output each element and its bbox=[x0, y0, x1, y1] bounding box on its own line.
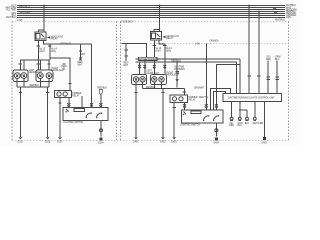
dimmer relay label (right) bbox=[189, 97, 198, 101]
fuse label 2 (left) bbox=[51, 49, 58, 53]
rail tick B bbox=[37, 63, 40, 65]
tick bbox=[257, 75, 260, 77]
bus left labels bbox=[5, 5, 16, 19]
svg-text:WHT/BLK: WHT/BLK bbox=[6, 17, 16, 19]
tick bbox=[161, 92, 164, 94]
junction dot (left feed) bbox=[43, 5, 45, 7]
bus line 4 bbox=[17, 11, 285, 13]
svg-text:G201: G201 bbox=[18, 141, 24, 143]
stub to switch terminal bbox=[81, 96, 83, 108]
relay pin 1 connector tick bbox=[37, 45, 40, 47]
bulb feed wires (right circuit) bbox=[140, 59, 165, 75]
fuse label 2 (right) bbox=[166, 48, 173, 52]
fuse 2 wire (right) bbox=[164, 44, 166, 65]
wire: relay top step (right) bbox=[154, 30, 160, 32]
inline connector circle bbox=[100, 129, 103, 132]
fuse label 1 (left) bbox=[39, 49, 46, 53]
tick bbox=[134, 92, 137, 94]
bulb A filament ground stubs bbox=[17, 79, 24, 87]
svg-text:RED/: RED/ bbox=[123, 63, 129, 65]
svg-text:G202: G202 bbox=[45, 141, 51, 143]
ground rail under bulbs (left) bbox=[17, 86, 49, 88]
svg-text:GRN: GRN bbox=[238, 123, 243, 125]
svg-text:WHT: WHT bbox=[123, 65, 129, 67]
bus wire color labels bbox=[20, 6, 31, 14]
dimmer relay label (left) bbox=[72, 93, 81, 97]
rail tick C bbox=[47, 63, 50, 65]
junction dot (DRL feed 1) bbox=[248, 5, 250, 7]
svg-text:LEFT: LEFT bbox=[29, 70, 35, 72]
bus line 2 bbox=[17, 7, 285, 9]
stub to bulb A right pin bbox=[23, 60, 25, 70]
svg-text:C725: C725 bbox=[17, 20, 23, 22]
svg-text:WHT/BLU: WHT/BLU bbox=[20, 6, 30, 8]
connector chevrons bbox=[215, 104, 218, 108]
svg-text:No.13: No.13 bbox=[39, 49, 46, 51]
svg-text:G404: G404 bbox=[213, 142, 219, 144]
right headlight label bbox=[52, 68, 65, 72]
headlight relay (left) bbox=[35, 32, 46, 41]
ground G203 bbox=[57, 137, 63, 143]
switch feed connector chevrons bbox=[90, 103, 93, 107]
svg-text:G203: G203 bbox=[57, 141, 63, 143]
svg-text:BLU: BLU bbox=[245, 123, 250, 125]
left dashed box right edge bbox=[116, 21, 118, 140]
labeled feed 2 into DRL bbox=[275, 57, 281, 94]
chevrons bbox=[183, 104, 186, 108]
incoming wire from left circuit bbox=[122, 44, 147, 59]
dimmer relay box (right) bbox=[170, 95, 188, 102]
left headlight label bbox=[29, 70, 42, 74]
ground G402 bbox=[160, 137, 166, 143]
dimmer pin to switch wire bbox=[68, 98, 70, 108]
relay pin tick (right) bbox=[153, 45, 156, 47]
bus drop to DRL unit 1 bbox=[248, 6, 250, 94]
svg-text:RED/BLK: RED/BLK bbox=[146, 87, 156, 89]
svg-text:RED/: RED/ bbox=[78, 62, 84, 64]
inline stub connector bbox=[123, 44, 129, 67]
svg-text:LIGHTING SWITCH: LIGHTING SWITCH bbox=[63, 122, 83, 124]
tick on dimmer feed bbox=[68, 82, 71, 84]
svg-text:G204: G204 bbox=[98, 142, 104, 144]
DRL output connector 4 bbox=[253, 102, 264, 125]
dimmer relay box (left) bbox=[55, 90, 72, 97]
right dashed box left edge bbox=[120, 21, 122, 140]
bus line 5 bbox=[17, 13, 285, 15]
bus line 7 bbox=[17, 17, 285, 19]
switch riser to rail 3 bbox=[216, 65, 240, 110]
wire: relay top step (left) bbox=[39, 30, 45, 32]
svg-text:FUSE BOX: FUSE BOX bbox=[122, 22, 134, 24]
ground wire (right circuit) bbox=[162, 88, 164, 137]
ground G204 bbox=[98, 138, 104, 145]
wire: bus to headlight relay (left) bbox=[43, 6, 45, 33]
tick bbox=[183, 91, 186, 93]
ground G404 bbox=[213, 138, 219, 145]
svg-text:WHT/GRN: WHT/GRN bbox=[253, 123, 264, 125]
svg-text:HOT: HOT bbox=[11, 5, 16, 7]
ground rail (right circuit) bbox=[143, 87, 185, 89]
bus right end labels bbox=[273, 5, 297, 21]
feed rail 1 (right) bbox=[136, 58, 241, 60]
rail tick A bbox=[19, 63, 22, 65]
svg-text:LIGHTING SWITCH: LIGHTING SWITCH bbox=[180, 124, 200, 126]
switch to ground wire bbox=[100, 120, 102, 136]
svg-text:WHT/GRN: WHT/GRN bbox=[20, 12, 31, 14]
ground G401 bbox=[133, 137, 139, 143]
svg-text:WHT: WHT bbox=[78, 64, 84, 66]
right dashed box right edge bbox=[288, 21, 290, 140]
stub tick 1 bbox=[79, 50, 82, 52]
headlight relay label (right) bbox=[166, 35, 179, 40]
DRL junction wire bbox=[239, 102, 247, 118]
switch feed drop wire bbox=[91, 44, 93, 108]
diode branch bbox=[175, 62, 186, 88]
wire: bus to headlight relay (right) bbox=[159, 6, 161, 32]
rail to dimmer feed wire bbox=[183, 88, 185, 95]
svg-text:G405: G405 bbox=[261, 143, 267, 145]
svg-text:DIMMER: DIMMER bbox=[189, 97, 198, 99]
stub wire label bbox=[78, 62, 84, 66]
DRL output connector 3 bbox=[245, 110, 250, 125]
bulb1 ground wire (right circuit) bbox=[135, 82, 137, 137]
svg-text:RIGHT: RIGHT bbox=[167, 72, 175, 74]
headlight relay label (left) bbox=[51, 35, 64, 40]
combination light switch (left) bbox=[63, 108, 108, 121]
svg-text:DIMMER: DIMMER bbox=[72, 93, 81, 95]
relay pin 1 wire (right) bbox=[153, 40, 155, 65]
left headlight label (right circuit) bbox=[147, 71, 160, 75]
bus drop to DRL unit 2 bbox=[258, 12, 260, 94]
ground wire left bbox=[20, 87, 22, 137]
rail corner drop 1 bbox=[239, 59, 241, 93]
svg-text:YEL/: YEL/ bbox=[266, 57, 271, 59]
bus junction mark 2 bbox=[274, 12, 277, 14]
bus line 6 bbox=[17, 15, 285, 17]
switch to ground wire (right) bbox=[215, 123, 217, 137]
svg-text:GRN/: GRN/ bbox=[275, 57, 281, 59]
dimmer ground tick bbox=[58, 102, 61, 104]
left headlight bulb (left circuit) bbox=[13, 70, 28, 82]
svg-text:RED/BLK: RED/BLK bbox=[30, 85, 40, 87]
svg-text:GRN: GRN bbox=[286, 17, 291, 19]
ground G201 bbox=[18, 137, 24, 143]
svg-text:BLU: BLU bbox=[238, 125, 243, 127]
relay pin 2 jog (right) bbox=[159, 40, 165, 44]
tap wire label bbox=[62, 66, 68, 70]
svg-text:G403: G403 bbox=[171, 141, 177, 143]
dimmer pin to ground (right) bbox=[173, 102, 175, 137]
svg-text:RUNNING: RUNNING bbox=[175, 69, 186, 71]
daytime running lights control unit bbox=[223, 93, 282, 101]
bulb ground stubs (right circuit) bbox=[143, 82, 162, 88]
stub wire with inline connectors bbox=[80, 44, 82, 60]
DRL output connector 2 bbox=[238, 117, 243, 127]
bus junction mark 1 bbox=[273, 8, 276, 10]
ground wire right bbox=[47, 87, 49, 137]
svg-text:G401: G401 bbox=[133, 141, 139, 143]
dashed boundary top edge bbox=[12, 20, 289, 22]
rail label box bbox=[139, 57, 161, 61]
svg-text:RED: RED bbox=[229, 125, 234, 127]
tap connector tick bbox=[62, 63, 65, 65]
left headlight bulb (right circuit) bbox=[132, 74, 147, 84]
svg-text:GRN/WHT: GRN/WHT bbox=[194, 88, 205, 90]
dimmer pin to ground wire bbox=[59, 98, 61, 138]
right headlight label (right circuit) bbox=[167, 72, 180, 76]
dashed bottom edge bbox=[12, 139, 289, 141]
bus line 3 bbox=[17, 9, 285, 11]
long feed to switch (right) bbox=[205, 43, 207, 110]
combination light switch (right) bbox=[182, 110, 224, 123]
relay pin 2 jog wire bbox=[44, 41, 92, 44]
feed rail 2 (right) bbox=[136, 61, 237, 63]
bus line 1 bbox=[17, 5, 285, 7]
DRL input routing 1 bbox=[214, 92, 226, 111]
DRL output connector 1 bbox=[229, 102, 234, 128]
svg-text:No.13: No.13 bbox=[155, 48, 162, 50]
chevrons bbox=[67, 103, 70, 107]
ground G202 bbox=[45, 137, 51, 143]
connector chevrons bbox=[205, 104, 208, 108]
stub connector pair bbox=[79, 58, 82, 60]
junction dot (right feed) bbox=[159, 5, 161, 7]
inner dashed line (DRL region) bbox=[150, 42, 289, 44]
ground wire left tick bbox=[19, 92, 22, 94]
bulb B filament ground stubs bbox=[40, 79, 49, 87]
connector marks above bulbs bbox=[138, 65, 166, 69]
svg-text:No.14: No.14 bbox=[166, 48, 173, 50]
headlight feed rail (left) bbox=[20, 60, 50, 70]
left dashed box left edge bbox=[11, 21, 13, 140]
wire: fuse2 tap to dimmer relay bbox=[50, 58, 70, 90]
svg-text:RED/WHT: RED/WHT bbox=[61, 44, 72, 46]
fuse 2 wire bbox=[49, 44, 51, 60]
svg-text:RED/BLU: RED/BLU bbox=[171, 60, 181, 62]
svg-text:WHT/BLK: WHT/BLK bbox=[275, 19, 285, 21]
dimmer pin to switch (right) bbox=[184, 102, 186, 110]
fuse 2 tick (right) bbox=[163, 45, 166, 47]
headlight relay label arrow (left) bbox=[47, 36, 50, 38]
drop to bulb B right pin bbox=[48, 60, 50, 70]
tick bbox=[173, 107, 176, 109]
ground G405 bbox=[261, 137, 267, 144]
svg-text:RIGHT: RIGHT bbox=[52, 68, 60, 70]
right headlight bulb (right circuit) bbox=[151, 74, 167, 84]
from-arrow into switch terminal bbox=[98, 88, 108, 108]
svg-text:G402: G402 bbox=[160, 141, 166, 143]
fuse label 1 (right) bbox=[155, 48, 162, 52]
headlight relay (right) bbox=[151, 32, 162, 41]
inline connector circle (right) bbox=[215, 129, 218, 132]
svg-text:LEFT: LEFT bbox=[147, 71, 153, 73]
DRL ground wire bbox=[263, 102, 265, 138]
svg-text:RED/: RED/ bbox=[62, 66, 68, 68]
labeled feed 1 into DRL bbox=[266, 57, 271, 94]
inner dashed line labels bbox=[195, 40, 219, 46]
svg-text:WHT: WHT bbox=[80, 54, 86, 56]
right headlight bulb (left circuit) bbox=[36, 70, 53, 82]
ground wire right tick bbox=[46, 92, 49, 94]
svg-text:No.14: No.14 bbox=[51, 49, 58, 51]
headlight relay label arrow (right) bbox=[162, 36, 165, 38]
svg-text:RED/YEL: RED/YEL bbox=[199, 97, 209, 99]
DRL input routing 2 bbox=[211, 89, 231, 111]
drop to bulb B left pin bbox=[39, 60, 41, 70]
relay pin 1 wire bbox=[37, 41, 39, 70]
tick bbox=[247, 75, 250, 77]
ground G403 bbox=[171, 137, 177, 143]
rail corner drop 2 bbox=[236, 62, 238, 94]
svg-text:WHT/BLU: WHT/BLU bbox=[286, 5, 296, 7]
fuse 2 connector tick bbox=[48, 45, 51, 47]
junction dot (DRL feed 2) bbox=[258, 11, 260, 13]
